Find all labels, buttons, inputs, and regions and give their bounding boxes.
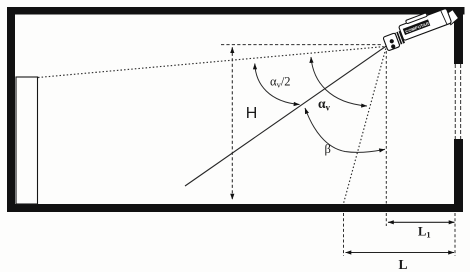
camera body end separator xyxy=(441,10,447,24)
lower field-of-view dotted line xyxy=(344,49,386,204)
arc alpha-v/2 xyxy=(255,64,300,105)
horizontal reference dashed line xyxy=(221,44,383,46)
camera body xyxy=(399,8,452,40)
extension dashed line below right wall xyxy=(454,213,456,256)
camera group xyxy=(380,3,460,51)
right wall lower segment xyxy=(454,139,463,212)
lens barrel xyxy=(394,31,405,46)
optical axis solid line xyxy=(185,46,387,187)
svg-text:β: β xyxy=(325,142,331,156)
dimension line L xyxy=(346,252,455,254)
camera head xyxy=(383,33,400,51)
vertical dashed line below camera xyxy=(385,51,387,204)
arc alpha-v xyxy=(311,57,367,106)
arc beta xyxy=(305,108,385,152)
top wall xyxy=(7,7,465,15)
upper field-of-view dotted line xyxy=(38,47,385,78)
svg-text:H: H xyxy=(246,105,258,122)
lens dot lower xyxy=(390,44,395,49)
bottom wall xyxy=(7,204,463,212)
H dimension line xyxy=(231,47,233,199)
lens barrel stripes xyxy=(396,32,401,44)
camera tip cap xyxy=(445,9,460,25)
right wall upper segment xyxy=(454,7,463,64)
left wall xyxy=(7,7,15,212)
extension dashed line at floor hit point xyxy=(343,213,345,256)
window in right wall xyxy=(454,64,456,139)
svg-text:αv/2: αv/2 xyxy=(270,75,291,90)
extension dashed line below camera xyxy=(385,213,387,226)
svg-text:L: L xyxy=(399,257,408,272)
camera handle xyxy=(405,13,427,24)
lens dot upper xyxy=(389,39,394,44)
dimension line L1 xyxy=(388,221,455,223)
camera label band xyxy=(403,19,431,35)
screen on left wall xyxy=(16,77,38,204)
